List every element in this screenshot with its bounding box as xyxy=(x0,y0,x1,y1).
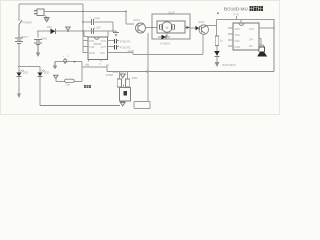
svg-text:9014: 9014 xyxy=(134,18,141,22)
svg-text:TRG: TRG xyxy=(235,34,240,37)
svg-text:M: M xyxy=(166,26,169,30)
svg-text:9013: 9013 xyxy=(199,20,205,24)
svg-text:VCC: VCC xyxy=(101,39,107,43)
svg-text:470Ω.R1: 470Ω.R1 xyxy=(120,40,132,44)
svg-text:VDD: VDD xyxy=(235,28,240,31)
svg-text:1N4: 1N4 xyxy=(47,25,53,29)
svg-text:2.2μF: 2.2μF xyxy=(94,26,101,30)
svg-text:35M: 35M xyxy=(132,76,138,80)
svg-text:BO16D-MU: BO16D-MU xyxy=(224,7,249,12)
svg-text:22μF: 22μF xyxy=(168,11,175,15)
svg-text:BOM DECT: BOM DECT xyxy=(223,63,237,67)
svg-text:OUT: OUT xyxy=(101,45,107,49)
svg-text:OUT: OUT xyxy=(249,28,255,31)
svg-text:POWER: POWER xyxy=(22,20,32,24)
svg-text:LED: LED xyxy=(44,70,49,74)
svg-text:GND: GND xyxy=(235,46,241,49)
svg-text:100R: 100R xyxy=(128,49,135,53)
svg-text:GND: GND xyxy=(89,51,95,55)
svg-text:LED: LED xyxy=(23,70,28,74)
svg-text:10k: 10k xyxy=(65,83,70,87)
svg-text:P-41: P-41 xyxy=(234,13,240,17)
svg-text:1N4001: 1N4001 xyxy=(160,42,171,46)
svg-text:DIS: DIS xyxy=(101,51,106,55)
svg-text:BATT: BATT xyxy=(21,35,28,39)
svg-text:160M: 160M xyxy=(106,73,114,77)
svg-text:OSC: OSC xyxy=(235,40,241,43)
svg-text:10μF: 10μF xyxy=(94,16,101,20)
svg-text:SP−: SP− xyxy=(249,45,254,48)
svg-text:GND: GND xyxy=(41,37,47,41)
svg-text:SP+: SP+ xyxy=(249,38,254,41)
